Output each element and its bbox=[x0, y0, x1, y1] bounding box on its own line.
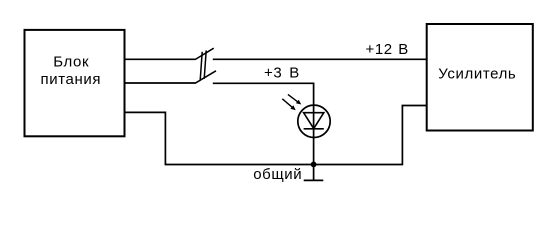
connector X1 socket line bbox=[204, 50, 206, 78]
common wire from power supply bbox=[125, 106, 427, 165]
svg-text:общий: общий bbox=[253, 166, 302, 183]
ground symbol bbox=[304, 165, 324, 181]
photodiode VD1 triangle bbox=[304, 113, 324, 129]
svg-text:питания: питания bbox=[41, 71, 102, 88]
connector X1 plug line bbox=[200, 52, 202, 80]
svg-text:+3 В: +3 В bbox=[264, 65, 300, 82]
photodiode VD1 wire through body bbox=[313, 105, 315, 165]
junction node bbox=[311, 162, 317, 168]
label "Усилитель" bbox=[438, 65, 516, 82]
wire +3V left segment bbox=[125, 82, 196, 84]
svg-text:Блок: Блок bbox=[53, 53, 89, 70]
light arrow 2 bbox=[282, 99, 295, 110]
label "Блок питания" bbox=[41, 53, 102, 88]
connector contact hook (lower diagonal) bbox=[195, 71, 216, 84]
svg-text:+12 В: +12 В bbox=[366, 41, 409, 58]
connector contact hook (upper diagonal) bbox=[195, 48, 214, 59]
wire +12V right segment bbox=[213, 58, 427, 60]
photodiode VD1 circle bbox=[298, 105, 330, 137]
svg-text:Усилитель: Усилитель bbox=[438, 65, 516, 82]
power supply box A1 bbox=[25, 30, 125, 136]
label "+12 В" bbox=[366, 41, 409, 58]
amplifier box A2 bbox=[427, 24, 533, 131]
light arrow 1 bbox=[288, 94, 301, 104]
label "общий" bbox=[253, 166, 302, 183]
label "+3 В" bbox=[264, 65, 300, 82]
wire +3V right segment to LED bbox=[213, 83, 314, 104]
photodiode VD1 cathode bar bbox=[304, 128, 324, 130]
wire +12V left segment bbox=[125, 58, 196, 60]
